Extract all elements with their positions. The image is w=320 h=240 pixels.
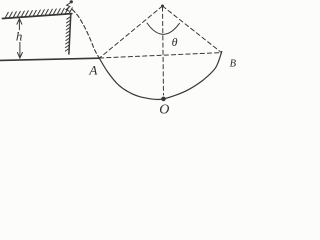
cliff vertical line <box>69 14 71 54</box>
dashed line apex to B <box>163 6 222 53</box>
ball at edge <box>70 0 73 3</box>
svg-text:θ: θ <box>172 35 178 49</box>
dashed chord A to B <box>100 53 222 58</box>
O dot <box>161 97 166 102</box>
svg-text:B: B <box>230 59 237 70</box>
svg-text:h: h <box>16 28 23 43</box>
svg-text:O: O <box>159 102 169 117</box>
projectile dashed trajectory <box>72 10 99 59</box>
squiggle below ball <box>66 3 70 11</box>
svg-text:A: A <box>88 62 97 77</box>
angle arc <box>147 23 180 34</box>
dashed vertical line apex to O <box>163 7 164 95</box>
apex dot <box>161 5 164 8</box>
table top line <box>3 14 72 19</box>
hatching above table line <box>5 8 72 18</box>
h down arrow <box>19 42 21 57</box>
cliff hatching (left side) <box>65 17 70 52</box>
ground line <box>0 58 100 60</box>
dashed line apex to A <box>100 6 163 58</box>
big arc A-O-B <box>100 52 222 100</box>
h up arrow <box>18 19 20 30</box>
